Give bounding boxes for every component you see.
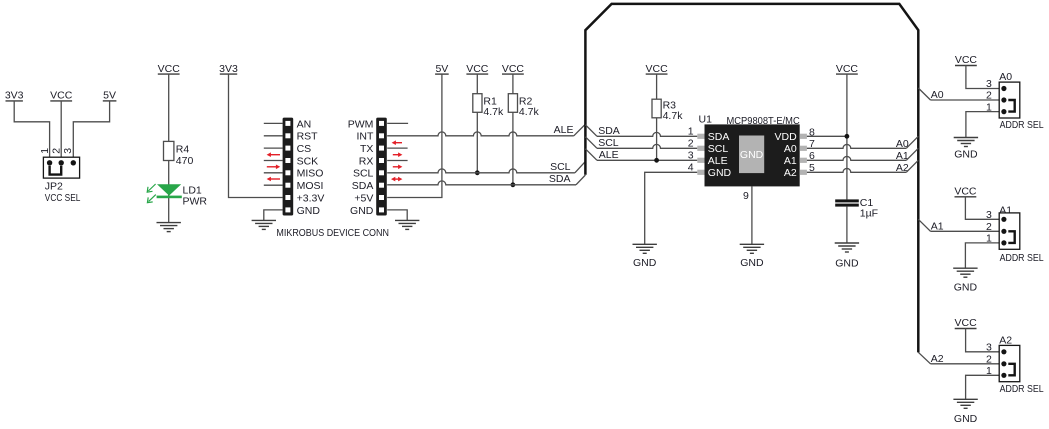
junction VDD/VCC xyxy=(845,134,850,139)
bus exit diagonal ALE xyxy=(585,149,597,161)
header P1 (left mikroBUS) body xyxy=(283,118,294,216)
svg-text:ADDR SEL: ADDR SEL xyxy=(1000,119,1044,131)
svg-text:3: 3 xyxy=(986,209,992,221)
svg-text:A0: A0 xyxy=(931,89,944,101)
wire U1 pin8 VDD to VCC xyxy=(807,135,847,137)
bus exit diagonal A1 xyxy=(918,219,930,231)
wire R4 to LED to ground xyxy=(168,161,170,223)
wire A2 net U1 pin5 to bus (hop at VCC) xyxy=(807,168,906,172)
header P2 (right mikroBUS) body xyxy=(376,118,387,216)
junction R1/SCL xyxy=(475,170,480,175)
ground (A2 sel) xyxy=(953,399,977,408)
JP2 pin 3 xyxy=(71,160,76,165)
svg-text:3: 3 xyxy=(986,78,992,90)
connector JP2 body xyxy=(43,157,79,178)
connector A0 body xyxy=(999,82,1020,118)
svg-text:1: 1 xyxy=(986,365,992,377)
svg-text:SCK: SCK xyxy=(297,155,319,167)
arrow SDA (red, both ways) xyxy=(391,177,402,182)
wire 3V3 to +3.3V pin xyxy=(229,74,283,197)
wire R2 to SDA net xyxy=(512,112,514,185)
wire VCC to A0 jumper pin3 xyxy=(966,66,999,89)
junction R2/SDA xyxy=(511,182,516,187)
A2 shunt bracket pins 1-2 xyxy=(1008,364,1014,376)
svg-text:VCC: VCC xyxy=(158,63,181,75)
wire SCL net (SCL pin to bus, hops at 5V,R2) xyxy=(387,169,575,173)
A2 pin 3 xyxy=(1001,349,1006,354)
svg-text:MOSI: MOSI xyxy=(297,180,324,192)
wire ALE to U1 pin3 xyxy=(597,159,697,161)
power flag 5V (header feed) xyxy=(435,63,449,75)
svg-text:SDA: SDA xyxy=(352,180,374,192)
svg-text:A1: A1 xyxy=(999,204,1012,216)
IC U1 body xyxy=(705,124,800,186)
arrow SCK (red, left) xyxy=(267,152,280,157)
wire VCC to R1 xyxy=(476,74,478,94)
wire SDA to U1 pin1 (hop at R3) xyxy=(597,132,697,136)
svg-text:R4: R4 xyxy=(176,144,190,156)
svg-text:470: 470 xyxy=(176,155,194,167)
U1 left pin labels xyxy=(708,131,732,179)
connector A1 body xyxy=(999,213,1020,249)
bus entry diagonal A2 xyxy=(906,160,918,172)
JP2 shunt bracket pins 1-2 xyxy=(50,166,62,175)
power flag VCC (R4) xyxy=(158,63,181,75)
svg-text:VCC: VCC xyxy=(836,63,859,75)
wire stub RX xyxy=(387,160,407,162)
A1 pin 3 xyxy=(1001,217,1006,222)
wire ALE net (INT pin to bus, hops at 5V,R1,R2) xyxy=(387,132,574,136)
svg-text:A0: A0 xyxy=(784,143,797,155)
wire stub CS xyxy=(264,147,283,149)
wire VCC to R4 xyxy=(168,74,170,141)
wire VCC down to VDD node and C1 xyxy=(846,74,848,199)
svg-text:SCL: SCL xyxy=(708,143,729,155)
svg-text:SDA: SDA xyxy=(708,131,730,143)
bus entry diagonal ALE xyxy=(574,124,586,136)
wire A0 net to jumper pin2 xyxy=(931,99,1000,101)
svg-text:GND: GND xyxy=(740,149,764,161)
svg-text:SCL: SCL xyxy=(598,137,619,149)
svg-text:VCC: VCC xyxy=(502,63,525,75)
svg-text:GND: GND xyxy=(954,281,978,293)
wire 5V to JP2 pin3 xyxy=(73,101,109,157)
U1 left pin stubs xyxy=(697,134,704,175)
wire stub RST xyxy=(264,135,283,137)
wire U1 pin9 to ground xyxy=(751,186,753,244)
ground (A0 sel) xyxy=(954,138,978,147)
wire GND pin to ground (right header) xyxy=(387,210,407,221)
header P1 pin pads xyxy=(285,121,290,212)
wire U1 pin4 GND to ground xyxy=(645,172,698,244)
power flag 3V3 (JP2 pin1) xyxy=(5,90,24,102)
svg-text:1: 1 xyxy=(986,101,992,113)
wire stub MISO xyxy=(264,172,283,174)
wire VCC to A1 jumper pin3 xyxy=(965,197,999,220)
svg-text:+5V: +5V xyxy=(354,192,373,204)
svg-text:A1: A1 xyxy=(931,220,944,232)
svg-text:+3.3V: +3.3V xyxy=(297,192,325,204)
svg-text:GND: GND xyxy=(633,257,657,269)
wire jumper pin1 to ground (A1) xyxy=(965,243,999,268)
ground (right header) xyxy=(395,220,419,229)
svg-text:GND: GND xyxy=(954,413,978,425)
svg-text:A2: A2 xyxy=(931,353,944,365)
A0 shunt bracket pins 1-2 xyxy=(1008,100,1014,112)
power flag VCC (U1 VDD) xyxy=(836,63,859,75)
svg-text:JP2: JP2 xyxy=(45,181,63,193)
svg-text:3V3: 3V3 xyxy=(219,63,238,75)
wire R1 to SCL net xyxy=(476,112,478,173)
svg-text:GND: GND xyxy=(708,167,732,179)
wire 5V down to +5V pin xyxy=(387,74,442,197)
svg-text:VDD: VDD xyxy=(775,131,798,143)
A2 pin 1 xyxy=(1001,373,1006,378)
A0 pin 3 xyxy=(1001,86,1006,91)
svg-text:1: 1 xyxy=(986,233,992,245)
wire SDA net (SDA pin to bus, hop at 5V) xyxy=(387,181,576,185)
resistor R1 xyxy=(473,94,482,113)
LED light arrow 2 xyxy=(147,195,155,203)
svg-text:PWM: PWM xyxy=(348,118,374,130)
wire VCC to R2 xyxy=(512,74,514,94)
svg-text:SDA: SDA xyxy=(598,125,620,137)
svg-text:3V3: 3V3 xyxy=(5,90,24,102)
svg-text:ADDR SEL: ADDR SEL xyxy=(1000,383,1044,395)
resistor R4 xyxy=(164,141,174,160)
power flag VCC (R3) xyxy=(646,63,669,75)
svg-text:GND: GND xyxy=(835,258,859,270)
wire A1 net U1 pin6 to bus (hop at VCC) xyxy=(807,156,906,160)
svg-text:9: 9 xyxy=(743,190,749,202)
ground (LED) xyxy=(157,223,181,232)
LED LD1 cathode bar xyxy=(157,196,182,199)
power flag VCC (R1) xyxy=(466,63,489,75)
arrow SCL (red, right) xyxy=(393,165,403,170)
svg-text:1: 1 xyxy=(688,126,694,138)
svg-text:2: 2 xyxy=(50,148,62,154)
wire A0 net U1 pin7 to bus (hop at VCC) xyxy=(807,144,906,148)
bus entry diagonal A1 xyxy=(906,148,918,160)
svg-text:ALE: ALE xyxy=(708,155,728,167)
svg-text:VCC: VCC xyxy=(466,63,489,75)
JP2 pin 1 xyxy=(47,160,52,165)
wire 3V3 to JP2 pin1 xyxy=(14,101,49,157)
bus exit diagonal A2 xyxy=(918,352,930,364)
svg-text:CS: CS xyxy=(297,143,312,155)
wire jumper pin1 to ground (A0) xyxy=(966,112,999,138)
U1 right pin labels xyxy=(775,131,798,179)
power flag VCC (A2) xyxy=(955,317,978,329)
ground (U1 pin4) xyxy=(633,244,657,253)
bus exit diagonal SCL xyxy=(585,137,597,149)
bus exit diagonal A0 xyxy=(918,88,930,100)
wire stub PWM xyxy=(387,122,408,124)
wire stub TX xyxy=(387,147,407,149)
svg-text:TX: TX xyxy=(360,143,373,155)
svg-text:2: 2 xyxy=(688,138,694,150)
arrow MISO (red, right) xyxy=(267,165,280,170)
svg-text:ALE: ALE xyxy=(599,149,619,161)
power flag 3V3 (header) xyxy=(219,63,238,75)
svg-text:VCC: VCC xyxy=(646,63,669,75)
svg-text:GND: GND xyxy=(954,149,978,161)
capacitor C1 plate 2 xyxy=(835,204,859,207)
svg-text:1µF: 1µF xyxy=(860,208,878,220)
svg-text:4.7k: 4.7k xyxy=(519,106,540,118)
svg-text:4.7k: 4.7k xyxy=(483,106,504,118)
svg-text:VCC: VCC xyxy=(954,186,977,198)
svg-text:AN: AN xyxy=(297,118,312,130)
svg-text:INT: INT xyxy=(356,131,374,143)
power flag 5V (JP2 pin3) xyxy=(103,90,117,102)
svg-text:MISO: MISO xyxy=(297,168,324,180)
svg-text:A1: A1 xyxy=(784,155,797,167)
svg-text:GND: GND xyxy=(740,257,764,269)
svg-text:1: 1 xyxy=(39,148,51,154)
svg-text:RST: RST xyxy=(297,131,319,143)
resistor R2 xyxy=(508,94,517,113)
svg-text:SDA: SDA xyxy=(549,173,571,185)
svg-text:LD1: LD1 xyxy=(183,184,202,196)
svg-text:VCC: VCC xyxy=(955,54,978,66)
svg-text:RX: RX xyxy=(359,155,374,167)
svg-text:SCL: SCL xyxy=(550,161,571,173)
wire SCL to U1 pin2 (hop at R3) xyxy=(597,144,697,148)
bus entry diagonal SCL xyxy=(575,161,586,172)
svg-text:VCC: VCC xyxy=(50,90,73,102)
wire stub MOSI xyxy=(264,184,283,186)
header P1 pin labels xyxy=(297,118,325,217)
LED LD1 triangle xyxy=(157,184,181,195)
arrow RX (red, right) xyxy=(393,152,403,157)
arrow MOSI (red, left) xyxy=(267,177,280,182)
ground (U1 pin9) xyxy=(740,244,764,253)
power flag VCC (A0) xyxy=(955,54,978,66)
wire A1 net to jumper pin2 xyxy=(931,230,1000,232)
A0 pin 2 xyxy=(1001,97,1006,102)
header P2 pin pads xyxy=(379,121,384,212)
U1 right pin stubs xyxy=(800,134,807,175)
A1 shunt bracket pins 1-2 xyxy=(1008,231,1014,243)
svg-text:PWR: PWR xyxy=(183,196,208,208)
svg-text:SCL: SCL xyxy=(353,168,374,180)
svg-text:3: 3 xyxy=(62,148,74,154)
bus entry diagonal SDA xyxy=(576,175,585,185)
svg-text:MIKROBUS DEVICE CONN: MIKROBUS DEVICE CONN xyxy=(276,227,389,239)
svg-text:2: 2 xyxy=(986,90,992,102)
power flag VCC (R2) xyxy=(502,63,525,75)
svg-text:5V: 5V xyxy=(103,90,116,102)
ground (A1 sel) xyxy=(953,268,977,277)
resistor R3 xyxy=(652,99,661,118)
wire stub SCK xyxy=(264,160,283,162)
A2 pin 2 xyxy=(1001,361,1006,366)
A0 pin 1 xyxy=(1001,109,1006,114)
header P2 pin labels xyxy=(348,118,374,217)
svg-text:VCC: VCC xyxy=(955,317,978,329)
wire VCC to A2 jumper pin3 xyxy=(966,329,1000,352)
svg-text:3: 3 xyxy=(688,150,694,162)
svg-text:A2: A2 xyxy=(784,167,797,179)
wire jumper pin1 to ground (A2) xyxy=(966,375,1000,399)
bus exit diagonal SDA xyxy=(585,125,597,137)
svg-text:2: 2 xyxy=(986,221,992,233)
wire A2 net to jumper pin2 xyxy=(931,363,1000,365)
arrow TX (red, left) xyxy=(392,140,402,145)
wire C1 to ground xyxy=(846,207,848,243)
svg-text:2: 2 xyxy=(986,353,992,365)
svg-text:U1: U1 xyxy=(699,114,713,126)
power flag VCC (JP2 pin2) xyxy=(50,90,73,102)
svg-text:3: 3 xyxy=(986,342,992,354)
ground (left header) xyxy=(252,220,276,229)
svg-text:GND: GND xyxy=(350,205,374,217)
svg-text:5V: 5V xyxy=(435,63,448,75)
junction R3/ALE xyxy=(654,158,659,163)
wire R3 to ALE net xyxy=(656,118,658,161)
LED light arrow 1 xyxy=(147,184,155,192)
wire GND pin to ground (left header) xyxy=(264,210,283,221)
bus entry diagonal A0 xyxy=(906,136,918,148)
svg-text:VCC SEL: VCC SEL xyxy=(45,192,81,204)
svg-text:A0: A0 xyxy=(999,71,1012,83)
svg-text:GND: GND xyxy=(297,205,321,217)
JP2 pin 2 xyxy=(59,160,64,165)
connector A2 body xyxy=(999,345,1020,381)
capacitor C1 plate 1 xyxy=(835,199,859,202)
bus line xyxy=(585,4,918,353)
wire VCC to R3 xyxy=(656,74,658,99)
U1 exposed pad xyxy=(739,136,764,174)
svg-text:4.7k: 4.7k xyxy=(663,110,684,122)
ground (C1) xyxy=(835,243,859,252)
wire VCC to JP2 pin2 xyxy=(60,101,62,157)
A1 pin 2 xyxy=(1001,229,1006,234)
A1 pin 1 xyxy=(1001,240,1006,245)
power flag VCC (A1) xyxy=(954,186,977,198)
svg-text:4: 4 xyxy=(688,162,694,174)
wire stub AN xyxy=(264,122,283,124)
svg-text:ALE: ALE xyxy=(554,124,574,136)
svg-text:ADDR SEL: ADDR SEL xyxy=(1000,252,1044,264)
